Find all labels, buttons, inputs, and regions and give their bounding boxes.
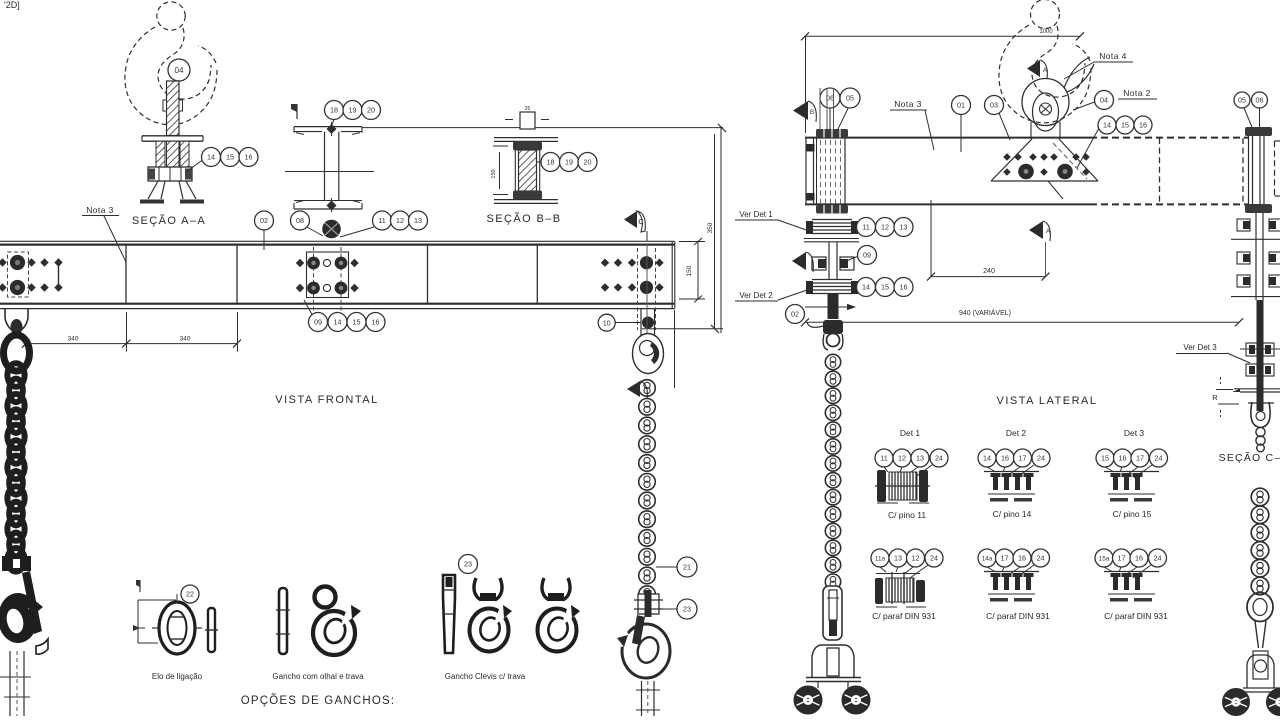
- extension line hook pin: [642, 328, 723, 330]
- svg-text:11a: 11a: [875, 555, 886, 562]
- balloon 11s: [857, 218, 876, 237]
- d3b balloon 24: [1149, 549, 1167, 567]
- d2 balloon 17: [1014, 449, 1032, 467]
- svg-text:14a: 14a: [982, 555, 993, 562]
- right bolt group bolts: [601, 256, 664, 294]
- svg-text:24: 24: [1154, 554, 1162, 563]
- balloon 20b: [578, 153, 597, 172]
- svg-text:03: 03: [990, 101, 998, 110]
- leaders 05r 06r: [1244, 108, 1260, 127]
- right shackle lower: [1248, 402, 1274, 428]
- balloon 01: [952, 96, 971, 115]
- spreader wheels left: [795, 687, 822, 714]
- leader 18b: [537, 161, 541, 163]
- detail icon paraf 1: [875, 572, 926, 607]
- note Nota 3 right: [890, 99, 934, 150]
- section flag A upper: [1027, 60, 1048, 79]
- side beam right stub dashed: [1275, 141, 1280, 196]
- svg-text:24: 24: [1037, 554, 1045, 563]
- balloon 16r: [1134, 116, 1152, 134]
- svg-text:14: 14: [1103, 121, 1111, 130]
- leader 09: [304, 300, 312, 315]
- balloon 15c: [347, 313, 366, 332]
- svg-text:17: 17: [1001, 554, 1009, 563]
- clevis hook 1: [470, 578, 515, 652]
- note Nota 2: [1118, 88, 1157, 99]
- balloon 19b: [560, 153, 579, 172]
- d3b leaders: [1104, 565, 1151, 578]
- center bolt group box: [307, 252, 349, 298]
- balloon 04: [168, 59, 190, 81]
- side beam dashed verticals: [1160, 138, 1244, 204]
- elo dimension marks: [133, 580, 176, 643]
- svg-text:Gancho com olhal e trava: Gancho com olhal e trava: [272, 672, 364, 681]
- svg-text:13: 13: [414, 216, 422, 225]
- section A-A feet: [140, 200, 204, 204]
- balloon 15r: [1116, 116, 1134, 134]
- svg-text:150: 150: [686, 265, 693, 276]
- d2b leaders: [987, 565, 1034, 578]
- center bolt group bolts: [296, 257, 359, 295]
- d2 leaders: [987, 465, 1034, 478]
- svg-text:25: 25: [525, 106, 531, 112]
- balloon 09: [309, 313, 328, 332]
- balloon 04b: [1095, 91, 1114, 110]
- d3 balloon 15: [1096, 449, 1114, 467]
- d3b balloon 17: [1113, 549, 1131, 567]
- d2 balloon 14: [978, 449, 996, 467]
- svg-text:04: 04: [1100, 96, 1108, 105]
- crane hook (dashed) right view: [999, 0, 1091, 123]
- right rod: [1257, 300, 1264, 411]
- svg-text:05: 05: [1238, 96, 1246, 105]
- label Ver Det 2: [735, 289, 810, 301]
- svg-text:Det 3: Det 3: [1124, 428, 1145, 438]
- svg-text:A: A: [1043, 67, 1048, 74]
- elo pin: [205, 608, 218, 652]
- leader 01: [960, 115, 962, 153]
- leader 14r: [1077, 129, 1099, 168]
- svg-text:02: 02: [791, 310, 799, 319]
- svg-text:01: 01: [957, 101, 965, 110]
- clevis pin item: [443, 575, 455, 653]
- svg-text:SEÇÃO A–A: SEÇÃO A–A: [132, 214, 206, 227]
- section flag C upper: [624, 211, 647, 241]
- dimension 940 variavel: [801, 308, 1243, 326]
- section B-B top flange: [494, 138, 558, 142]
- extension below beam right end: [674, 310, 676, 388]
- leader 14-nut: [186, 161, 202, 173]
- section cut mark near I-beam: [291, 104, 297, 119]
- rod bolt stack 1: [1240, 343, 1280, 356]
- main beam top flange: [0, 241, 675, 244]
- svg-text:Ver Det 2: Ver Det 2: [739, 291, 773, 300]
- d3 balloon 17: [1131, 449, 1149, 467]
- leader 09s: [846, 257, 858, 262]
- bottom spreader right: [1243, 651, 1280, 692]
- svg-text:′2D]: ′2D]: [4, 0, 20, 10]
- svg-text:23: 23: [464, 560, 472, 569]
- d3 leaders: [1105, 465, 1152, 478]
- d1 balloon 12: [893, 449, 911, 467]
- svg-text:04: 04: [175, 66, 184, 75]
- svg-text:21: 21: [683, 563, 691, 572]
- balloon 11: [373, 211, 392, 230]
- flange stack det1: [804, 220, 859, 242]
- svg-text:15: 15: [226, 153, 234, 162]
- balloon 10: [598, 314, 615, 331]
- section B-B bottom nuts: [513, 191, 542, 200]
- svg-text:350: 350: [707, 222, 714, 233]
- overall height dimension: [707, 124, 726, 333]
- spreader wheels right: [1223, 689, 1249, 715]
- svg-text:05: 05: [846, 94, 854, 103]
- section A-A top plate: [142, 136, 203, 141]
- gusset leader diagonal: [1048, 181, 1063, 199]
- right bolt group dashed lines: [638, 248, 656, 330]
- cut centerline: [1045, 242, 1047, 277]
- detail icon pin 11: [875, 470, 930, 503]
- balloon 13s: [894, 218, 913, 237]
- hook shank hatched: [163, 81, 183, 136]
- leader 04b: [1073, 102, 1095, 110]
- balloon 03: [985, 96, 1004, 115]
- d3 balloon 24: [1150, 449, 1168, 467]
- main beam right end: [672, 241, 675, 308]
- left hook: [0, 556, 48, 654]
- beam divider 3: [427, 245, 429, 304]
- svg-text:17: 17: [1136, 454, 1144, 463]
- svg-text:15: 15: [1101, 454, 1109, 463]
- svg-text:C: C: [638, 217, 644, 226]
- right suspension plates: [1245, 127, 1272, 213]
- I-beam web: [325, 132, 339, 201]
- section flag A lower: [1029, 221, 1051, 241]
- svg-text:VISTA LATERAL: VISTA LATERAL: [996, 395, 1097, 407]
- middle bolt cluster: [812, 242, 854, 280]
- svg-text:240: 240: [983, 268, 995, 275]
- svg-text:06: 06: [1256, 96, 1264, 105]
- d2b balloon 14a: [978, 549, 996, 567]
- balloon 21: [677, 557, 697, 577]
- mid chain shackle: [823, 334, 843, 350]
- svg-text:20: 20: [367, 106, 375, 115]
- leader 11s: [852, 226, 857, 228]
- leader 02: [263, 231, 265, 251]
- balloon 09s: [858, 246, 877, 265]
- I-beam center diamonds: [327, 122, 337, 212]
- chain right front view: [639, 380, 656, 603]
- hook latch solid curve: [1064, 57, 1094, 92]
- svg-text:16: 16: [1001, 454, 1009, 463]
- svg-text:C/ paraf DIN 931: C/ paraf DIN 931: [1104, 611, 1168, 621]
- chain centerline right of beam: [646, 244, 648, 334]
- balloon 18: [325, 101, 344, 120]
- svg-text:11: 11: [880, 454, 887, 463]
- d1 balloon 24: [930, 449, 948, 467]
- leader 08: [307, 227, 323, 236]
- left suspension plates: [806, 88, 845, 205]
- balloon 18b: [541, 153, 560, 172]
- balloon 23b: [459, 555, 478, 574]
- svg-text:14: 14: [207, 153, 215, 162]
- svg-text:09: 09: [863, 251, 871, 260]
- gusset bolts: [1003, 153, 1090, 179]
- svg-text:10: 10: [603, 318, 611, 327]
- svg-text:16: 16: [900, 283, 908, 292]
- svg-text:14: 14: [334, 318, 342, 327]
- svg-text:Det 1: Det 1: [900, 428, 921, 438]
- section flag B left: [793, 101, 816, 122]
- svg-text:08: 08: [296, 216, 304, 225]
- svg-text:19: 19: [565, 158, 573, 167]
- section A-A legs: [148, 181, 196, 199]
- chain clutch: [823, 586, 842, 640]
- balloon 02: [255, 211, 274, 230]
- balloon 20: [362, 101, 381, 120]
- hook bottom right: [615, 615, 670, 678]
- leaders 05 06: [830, 108, 848, 129]
- balloon 12s: [876, 218, 895, 237]
- svg-text:22: 22: [186, 590, 194, 599]
- left bolt group bolts: [0, 255, 63, 295]
- svg-text:C/ paraf DIN 931: C/ paraf DIN 931: [872, 611, 936, 621]
- bottom spreader left: [806, 645, 861, 688]
- I-beam section top flange: [294, 127, 362, 135]
- svg-text:15: 15: [1121, 121, 1129, 130]
- svg-text:Ver Det 3: Ver Det 3: [1183, 343, 1217, 352]
- svg-text:340: 340: [180, 336, 191, 343]
- balloon 16: [239, 148, 258, 167]
- leader 21: [656, 566, 677, 568]
- svg-text:R: R: [1212, 393, 1218, 402]
- svg-text:14: 14: [862, 283, 870, 292]
- svg-text:SEÇÃO C–: SEÇÃO C–: [1219, 451, 1280, 464]
- top pin dark: [322, 220, 341, 239]
- d2 balloon 24: [1032, 449, 1050, 467]
- beam divider 2: [236, 245, 238, 304]
- balloon 15: [221, 148, 240, 167]
- svg-text:B: B: [810, 109, 814, 116]
- d1b balloon 12: [907, 549, 925, 567]
- d2b balloon 16: [1013, 549, 1031, 567]
- svg-text:OPÇÕES DE GANCHOS:: OPÇÕES DE GANCHOS:: [241, 694, 396, 707]
- R dimension mark: [1212, 377, 1239, 417]
- pulley link plates: [641, 309, 655, 336]
- svg-text:C/ pino 15: C/ pino 15: [1113, 509, 1152, 519]
- leader 23: [663, 608, 677, 610]
- clevis hook 2: [538, 578, 583, 652]
- chain connector right: [634, 590, 663, 617]
- svg-text:20: 20: [584, 158, 592, 167]
- d3b balloon 15a: [1095, 549, 1113, 567]
- I-beam bottom flange: [294, 201, 362, 210]
- svg-text:23: 23: [683, 605, 691, 614]
- balloon 02s: [786, 305, 805, 324]
- section flag B2: [792, 252, 813, 272]
- detail icon paraf 2: [984, 572, 1039, 602]
- balloon 12: [391, 211, 410, 230]
- svg-text:940 (VARIÁVEL): 940 (VARIÁVEL): [959, 308, 1011, 317]
- svg-text:18: 18: [547, 158, 555, 167]
- svg-text:24: 24: [935, 454, 943, 463]
- balloon 05: [840, 88, 860, 108]
- detail icon paraf 3: [1104, 572, 1159, 602]
- mid chain top connector: [807, 320, 843, 347]
- section B-B height dim: [491, 146, 508, 195]
- extension lines 340: [127, 312, 238, 352]
- left chain master link: [4, 335, 30, 371]
- d2b balloon 24: [1032, 549, 1050, 567]
- side beam top edge: [805, 137, 1248, 139]
- d1b leaders: [880, 565, 928, 578]
- note Nota 4: [1064, 51, 1133, 79]
- section A-A nut block: [148, 167, 192, 181]
- right chain rings: [1251, 488, 1269, 595]
- center dark bar: [828, 294, 839, 319]
- rod bolt stack 2: [1246, 364, 1274, 376]
- gancho olhal pin: [276, 588, 290, 654]
- svg-text:Nota 2: Nota 2: [1123, 88, 1150, 98]
- d1 leaders: [884, 465, 932, 478]
- svg-text:Gancho Clevis c/ trava: Gancho Clevis c/ trava: [445, 672, 526, 681]
- balloon 23: [677, 599, 697, 619]
- svg-text:Nota 3: Nota 3: [86, 205, 113, 215]
- svg-text:16: 16: [1139, 121, 1147, 130]
- left suspension top nuts: [816, 129, 848, 138]
- svg-text:A: A: [1046, 228, 1051, 235]
- svg-text:13: 13: [900, 223, 908, 232]
- main beam bottom flange: [0, 304, 675, 309]
- hook stud right: [636, 681, 660, 716]
- svg-text:16: 16: [372, 318, 380, 327]
- svg-text:12: 12: [881, 223, 889, 232]
- section B-B cap: [505, 106, 549, 129]
- svg-text:13: 13: [916, 454, 924, 463]
- shackle right view: [1022, 79, 1069, 140]
- I-beam mid line: [285, 171, 374, 173]
- center bolt group dashed lines: [314, 247, 342, 311]
- balloon 13: [409, 211, 428, 230]
- d1b balloon 24: [925, 549, 943, 567]
- svg-text:14: 14: [983, 454, 991, 463]
- svg-text:150: 150: [491, 169, 497, 178]
- note Nota 3 left: [82, 205, 126, 262]
- svg-text:19: 19: [349, 106, 357, 115]
- leader arrow 02s: [805, 304, 856, 310]
- flange stack det2: [806, 280, 858, 295]
- pulley block: [633, 334, 664, 374]
- svg-text:Ver Det 1: Ver Det 1: [739, 210, 773, 219]
- leader 18: [332, 120, 335, 127]
- leader 11: [340, 227, 374, 237]
- beam divider 4: [536, 245, 538, 304]
- dimension 1000 top: [801, 29, 1084, 133]
- balloon 14s: [857, 278, 876, 297]
- gusset plate triangle: [991, 139, 1098, 181]
- d2 balloon 16: [996, 449, 1014, 467]
- svg-text:18: 18: [330, 106, 338, 115]
- left hook stud: [0, 651, 31, 716]
- extension line top: [362, 127, 723, 129]
- beam height dimension 150: [679, 238, 705, 303]
- svg-text:C/ pino 14: C/ pino 14: [993, 509, 1032, 519]
- svg-text:09: 09: [314, 318, 322, 327]
- dimension 340 second: [127, 336, 241, 348]
- svg-text:C/ paraf DIN 931: C/ paraf DIN 931: [986, 611, 1050, 621]
- dimension 340 first: [22, 336, 131, 348]
- left bolt group dashed box: [8, 252, 29, 297]
- balloon 14r: [1098, 116, 1116, 134]
- d2b balloon 17: [996, 549, 1014, 567]
- svg-text:24: 24: [1037, 454, 1045, 463]
- side beam bottom edge: [805, 203, 1248, 205]
- right master link: [1247, 593, 1273, 622]
- svg-text:12: 12: [912, 554, 920, 563]
- elo link ring: [152, 594, 202, 654]
- d1b balloon 13: [889, 549, 907, 567]
- svg-text:15: 15: [881, 283, 889, 292]
- svg-text:C/ pino 11: C/ pino 11: [888, 510, 926, 520]
- right suspension bolt stacks: [1231, 213, 1280, 300]
- svg-text:15: 15: [353, 318, 361, 327]
- balloon 05r: [1234, 92, 1250, 108]
- gancho olhal hook: [313, 587, 362, 656]
- detail icon pino 15: [1104, 472, 1159, 502]
- section A-A hatched posts: [156, 141, 189, 167]
- balloon 06r: [1252, 92, 1268, 108]
- balloon 08: [291, 211, 310, 230]
- svg-text:SEÇÃO B–B: SEÇÃO B–B: [487, 212, 562, 225]
- left suspension bottom nuts: [816, 205, 848, 214]
- svg-text:24: 24: [930, 554, 938, 563]
- svg-text:VISTA FRONTAL: VISTA FRONTAL: [275, 394, 378, 406]
- balloon 16s: [894, 278, 913, 297]
- balloon 22: [181, 585, 199, 603]
- label Ver Det 1: [735, 210, 809, 231]
- svg-text:Elo de ligação: Elo de ligação: [152, 672, 203, 681]
- svg-text:12: 12: [396, 216, 404, 225]
- svg-text:24: 24: [1155, 454, 1163, 463]
- flag below pulley: [627, 381, 647, 399]
- left chain links: [7, 363, 24, 571]
- balloon 15s: [876, 278, 895, 297]
- left chain shackle: [5, 309, 28, 335]
- svg-text:1000: 1000: [1039, 29, 1053, 35]
- svg-text:Nota 3: Nota 3: [894, 99, 921, 109]
- svg-text:11: 11: [378, 216, 385, 225]
- leader 03: [999, 113, 1010, 140]
- label Ver Det 3: [1176, 343, 1250, 363]
- d1 balloon 11: [875, 449, 893, 467]
- section B-B hatched pin: [515, 141, 539, 199]
- svg-text:17: 17: [1118, 554, 1126, 563]
- balloon 19: [343, 101, 362, 120]
- right V link: [1255, 621, 1266, 648]
- svg-text:13: 13: [894, 554, 902, 563]
- washer flare: [1232, 389, 1280, 392]
- balloon 06: [820, 88, 840, 108]
- svg-text:340: 340: [68, 336, 79, 343]
- d1 balloon 13: [911, 449, 929, 467]
- dimension 240: [927, 200, 1050, 281]
- svg-text:16: 16: [1135, 554, 1143, 563]
- detail icon pino 14: [984, 472, 1039, 502]
- svg-text:16: 16: [1119, 454, 1127, 463]
- svg-text:Det 2: Det 2: [1006, 428, 1027, 438]
- d3 balloon 16: [1114, 449, 1132, 467]
- balloon 16c: [366, 313, 385, 332]
